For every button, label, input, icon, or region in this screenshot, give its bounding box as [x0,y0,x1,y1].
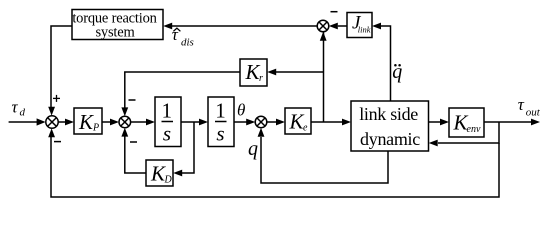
wire branch to Kr input [267,69,323,76]
label minus sum1 [54,141,61,143]
svg-text:q: q [392,61,402,83]
block J_link [347,13,372,38]
wire integrator2 to sum3 [234,119,255,126]
wire branch to KD input [173,122,194,176]
block K_P [74,108,102,134]
label minus sum2 bottom [130,141,137,143]
svg-text:τ: τ [12,98,19,117]
svg-text:d: d [20,107,26,119]
wire Jlink to sum4 [329,23,347,30]
svg-text:link: link [358,25,371,35]
label minus sum2 top [129,99,136,101]
svg-text:e: e [303,123,308,134]
svg-text:D: D [164,175,173,186]
node sum1 [46,116,58,128]
svg-text:env: env [467,124,481,135]
svg-text:1: 1 [215,99,226,123]
wire input tau_d [9,118,46,125]
wire q feedback to sum3 [258,128,388,183]
svg-text:θ: θ [237,101,245,120]
wire sum4 to torque reaction system [163,23,317,30]
svg-text:dis: dis [181,37,194,49]
block link side dynamic [351,101,429,151]
svg-text:K: K [78,110,94,134]
wire sum1 to KP [58,119,74,126]
node sum2 [119,116,131,128]
block K_D [146,160,173,186]
wire branch up to sum4 [320,32,327,122]
svg-text:out: out [526,106,541,118]
block torque reaction system [72,10,163,41]
label tau_out [518,95,541,118]
wire qdotdot to Jlink [372,23,391,101]
wire Ke to link side dynamic [311,119,351,126]
svg-text:1: 1 [162,99,173,123]
svg-text:s: s [163,122,171,146]
wire tau_out feedback bottom to sum1 [48,128,499,197]
wire torque reaction output to sum1 [48,26,72,116]
svg-text:τ: τ [518,95,525,114]
block K_r [240,59,267,86]
wire sum2 to integrator1 [131,119,155,126]
svg-text:q: q [248,138,258,160]
wire link side dynamic to Kenv [429,119,450,126]
wire KD output to sum2 [121,128,146,173]
wire KP to sum2 [102,119,119,126]
wire sum3 to Ke [267,119,285,126]
svg-text:link side: link side [359,104,418,124]
wire Kr output to sum2 [121,72,240,116]
label tau_d [12,98,26,119]
node sum4 [317,20,329,32]
label tau_dis with hat [172,25,194,49]
label plus sum1 [53,95,60,102]
block integrator 1/s no.1 [155,97,181,147]
svg-text:P: P [92,123,99,134]
svg-text:τ: τ [172,25,179,44]
wire Kenv to tau_out [484,119,540,126]
label minus sum4 [331,11,338,13]
svg-text:r: r [259,73,263,84]
block K_e [285,108,311,134]
svg-text:s: s [216,122,224,146]
label qdotdot [392,61,402,83]
wire tau_out feedback to link side dynamic [429,122,499,146]
svg-text:dynamic: dynamic [360,129,420,149]
node sum3 [255,116,267,128]
svg-text:system: system [95,25,135,41]
block integrator 1/s no.2 [208,97,234,147]
block K_env [449,108,484,137]
wire integrator1 to integrator2 [181,119,208,126]
